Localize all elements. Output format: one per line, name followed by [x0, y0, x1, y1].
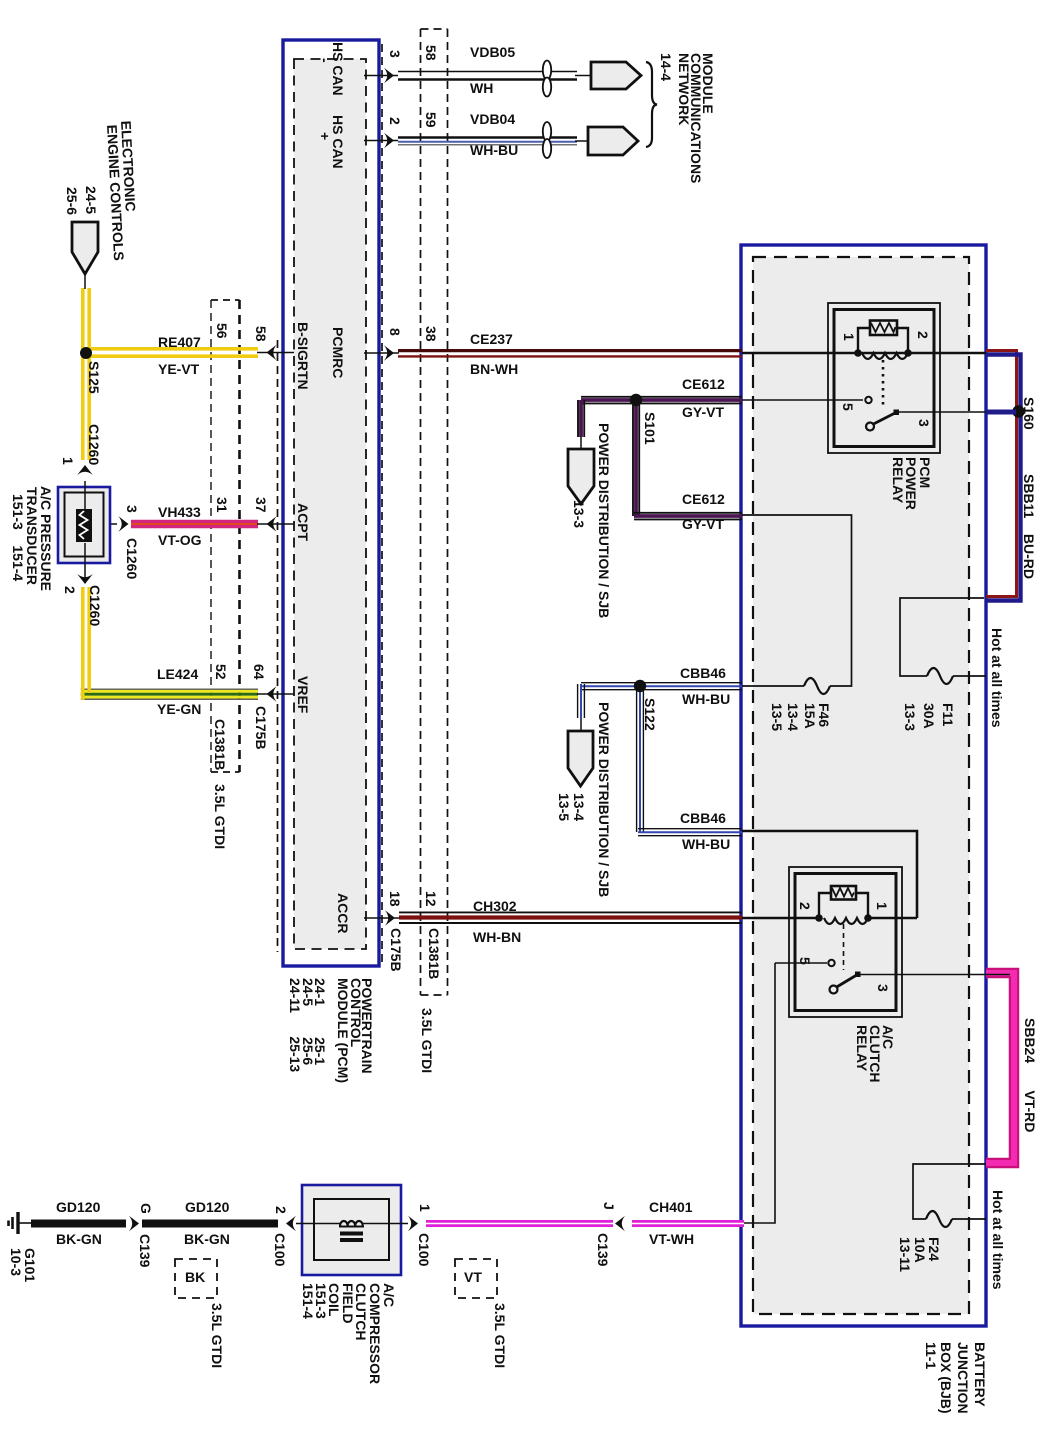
svg-text:B-SIGRTN: B-SIGRTN [295, 322, 311, 390]
svg-text:37: 37 [253, 497, 269, 513]
svg-text:VH433: VH433 [158, 504, 201, 520]
svg-text:S125: S125 [86, 361, 102, 394]
svg-text:13-11: 13-11 [897, 1237, 913, 1272]
svg-text:BN-WH: BN-WH [470, 361, 518, 377]
svg-text:CE237: CE237 [470, 331, 513, 347]
svg-text:SBB24 VT-RD: SBB24 VT-RD [1022, 1018, 1038, 1132]
svg-text:1: 1 [60, 457, 76, 465]
svg-text:C100: C100 [272, 1233, 288, 1267]
svg-text:15A: 15A [802, 703, 818, 729]
svg-text:G: G [138, 1203, 154, 1214]
svg-text:151-4: 151-4 [300, 1283, 316, 1319]
svg-text:BOX (BJB): BOX (BJB) [938, 1342, 954, 1414]
svg-text:GY-VT: GY-VT [682, 404, 724, 420]
svg-text:PCMRC: PCMRC [330, 327, 346, 378]
svg-text:56: 56 [214, 323, 230, 339]
svg-text:13-4: 13-4 [785, 703, 801, 731]
svg-text:CH302: CH302 [473, 898, 517, 914]
svg-text:3.5L GTDI: 3.5L GTDI [492, 1303, 508, 1368]
svg-text:12: 12 [423, 891, 439, 907]
svg-text:RELAY: RELAY [890, 457, 906, 504]
svg-text:F11: F11 [940, 703, 956, 727]
svg-text:WH: WH [470, 80, 493, 96]
svg-text:13-3: 13-3 [902, 703, 918, 731]
svg-text:NETWORK: NETWORK [676, 53, 692, 125]
svg-text:LE424: LE424 [157, 666, 198, 682]
svg-text:MODULE (PCM): MODULE (PCM) [335, 978, 351, 1083]
svg-text:VREF: VREF [295, 676, 311, 714]
svg-text:RE407: RE407 [158, 334, 201, 350]
svg-text:10-3: 10-3 [8, 1248, 24, 1276]
svg-text:2: 2 [387, 117, 403, 125]
svg-text:58: 58 [423, 45, 439, 61]
svg-text:S122: S122 [642, 698, 658, 731]
svg-text:WH-BU: WH-BU [470, 142, 518, 158]
svg-text:1: 1 [417, 1204, 433, 1212]
svg-text:3.5L GTDI: 3.5L GTDI [212, 784, 228, 849]
svg-text:WH-BU: WH-BU [682, 836, 730, 852]
svg-text:GY-VT: GY-VT [682, 516, 724, 532]
svg-text:C139: C139 [137, 1234, 153, 1268]
svg-text:RELAY: RELAY [854, 1025, 870, 1072]
svg-text:13-4: 13-4 [571, 793, 587, 821]
svg-text:S101: S101 [642, 412, 658, 445]
svg-text:30A: 30A [921, 703, 937, 729]
svg-text:HS CAN: HS CAN [330, 42, 346, 96]
svg-text:Hot at all times: Hot at all times [990, 1190, 1006, 1290]
svg-text:BK-GN: BK-GN [56, 1231, 102, 1247]
svg-text:3: 3 [124, 505, 140, 513]
svg-text:CE612: CE612 [682, 491, 725, 507]
svg-text:14-4: 14-4 [658, 53, 674, 81]
svg-text:24-11 25-13: 24-11 25-13 [287, 978, 303, 1072]
svg-text:64: 64 [251, 664, 267, 680]
svg-text:5: 5 [840, 403, 856, 411]
svg-text:VT: VT [464, 1269, 482, 1285]
svg-text:25-6: 25-6 [64, 187, 80, 215]
svg-text:C1381B: C1381B [212, 719, 228, 770]
svg-text:3: 3 [387, 50, 403, 58]
svg-text:151-3 151-4: 151-3 151-4 [10, 494, 26, 581]
svg-text:13-3: 13-3 [571, 500, 587, 528]
svg-text:1: 1 [841, 333, 857, 341]
svg-text:-: - [317, 58, 333, 63]
svg-text:C139: C139 [595, 1233, 611, 1267]
svg-text:J: J [601, 1202, 617, 1210]
svg-text:3: 3 [875, 984, 891, 992]
svg-text:JUNCTION: JUNCTION [955, 1342, 971, 1414]
svg-text:11-1: 11-1 [923, 1342, 939, 1369]
svg-text:52: 52 [213, 664, 229, 680]
svg-text:2: 2 [273, 1206, 289, 1214]
svg-text:BK: BK [185, 1269, 205, 1285]
svg-text:YE-VT: YE-VT [158, 361, 200, 377]
svg-text:HS CAN: HS CAN [330, 115, 346, 169]
svg-text:VDB05: VDB05 [470, 44, 515, 60]
svg-text:10A: 10A [912, 1237, 928, 1263]
svg-text:BATTERY: BATTERY [972, 1342, 988, 1407]
svg-text:GD120: GD120 [56, 1199, 101, 1215]
svg-text:31: 31 [214, 497, 230, 513]
svg-text:38: 38 [423, 326, 439, 342]
svg-text:YE-GN: YE-GN [157, 701, 201, 717]
svg-text:CBB46: CBB46 [680, 665, 726, 681]
svg-text:WH-BU: WH-BU [682, 691, 730, 707]
svg-text:WH-BN: WH-BN [473, 929, 521, 945]
svg-text:C100: C100 [416, 1233, 432, 1267]
svg-text:2: 2 [797, 902, 813, 910]
svg-text:C175B: C175B [388, 928, 404, 972]
svg-text:VDB04: VDB04 [470, 111, 515, 127]
svg-text:18: 18 [387, 891, 403, 907]
svg-text:C1260: C1260 [124, 538, 140, 579]
svg-text:3: 3 [916, 419, 932, 427]
svg-text:1: 1 [874, 902, 890, 910]
svg-text:+: + [317, 132, 333, 140]
svg-text:3.5L GTDI: 3.5L GTDI [209, 1303, 225, 1368]
svg-text:58: 58 [253, 326, 269, 342]
svg-text:13-5: 13-5 [556, 793, 572, 821]
svg-text:POWER DISTRIBUTION / SJB: POWER DISTRIBUTION / SJB [596, 423, 612, 618]
svg-text:2: 2 [62, 586, 78, 594]
svg-text:3.5L GTDI: 3.5L GTDI [419, 1008, 435, 1073]
svg-text:13-5: 13-5 [769, 703, 785, 731]
svg-text:CH401: CH401 [649, 1199, 693, 1215]
svg-text:SBB11 BU-RD: SBB11 BU-RD [1021, 474, 1037, 579]
svg-text:BK-GN: BK-GN [184, 1231, 230, 1247]
svg-text:C1260: C1260 [86, 424, 102, 465]
svg-text:CBB46: CBB46 [680, 810, 726, 826]
svg-text:CE612: CE612 [682, 376, 725, 392]
svg-text:ACPT: ACPT [295, 503, 311, 542]
svg-text:24-5: 24-5 [83, 186, 99, 214]
svg-text:C175B: C175B [253, 706, 269, 750]
svg-text:VT-OG: VT-OG [158, 532, 202, 548]
svg-text:59: 59 [423, 112, 439, 128]
svg-text:Hot at all times: Hot at all times [989, 628, 1005, 728]
svg-text:C1260: C1260 [87, 585, 103, 626]
svg-text:8: 8 [387, 328, 403, 336]
svg-text:5: 5 [797, 957, 813, 965]
svg-text:2: 2 [915, 331, 931, 339]
svg-text:S160: S160 [1021, 397, 1037, 430]
svg-text:VT-WH: VT-WH [649, 1231, 694, 1247]
svg-text:ACCR: ACCR [335, 893, 351, 933]
svg-text:C1381B: C1381B [426, 928, 442, 979]
svg-text:GD120: GD120 [185, 1199, 230, 1215]
svg-text:POWER DISTRIBUTION / SJB: POWER DISTRIBUTION / SJB [596, 702, 612, 897]
